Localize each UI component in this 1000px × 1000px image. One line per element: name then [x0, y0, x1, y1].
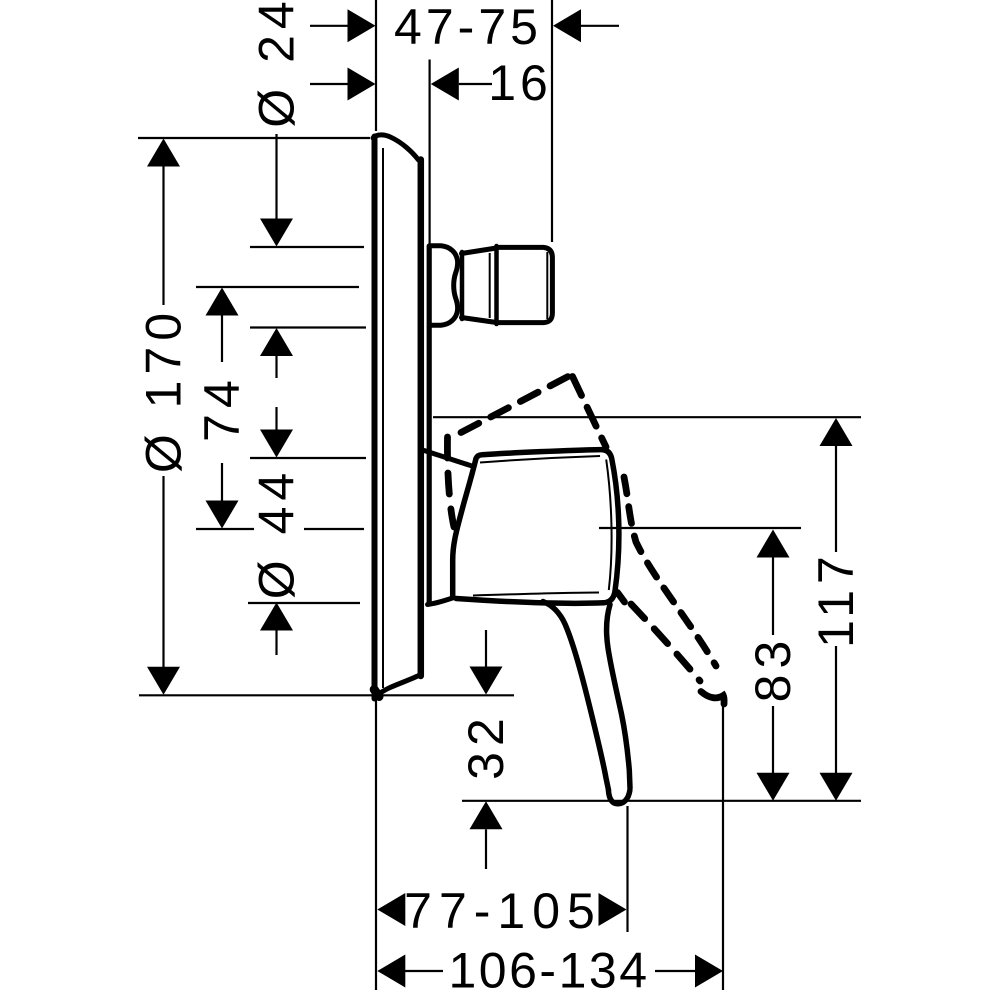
dim 32 lower arrow — [470, 801, 503, 829]
svg-text:16: 16 — [488, 55, 552, 111]
dashed neck edge — [447, 437, 454, 527]
handle body inner line right — [606, 460, 611, 591]
dim 77-105 right arrow — [599, 893, 627, 926]
dim Ø170 lower arrow — [162, 476, 164, 667]
extension line plate front (top) — [375, 0, 377, 131]
dim 83 upper arrow — [757, 530, 790, 558]
extension line handle axis left — [196, 528, 364, 530]
extension line plate top — [138, 137, 370, 139]
svg-text:117: 117 — [808, 550, 864, 648]
extension line stop right face (top) — [551, 0, 553, 242]
extension line handle axis right — [599, 527, 801, 529]
dim Ø24 line upper — [275, 134, 277, 220]
dim 106-134 right arrow — [655, 970, 696, 972]
volume-control stop sleeve — [430, 246, 458, 325]
escutcheon plate front face — [372, 137, 378, 699]
escutcheon plate bottom tip — [374, 690, 379, 697]
dim Ø24 upper arrow — [260, 219, 293, 247]
escutcheon plate inner front line — [382, 148, 384, 688]
handle body inner line bottom — [473, 593, 599, 596]
extension line plate front (bottom) — [375, 697, 377, 990]
svg-text:74: 74 — [194, 374, 250, 442]
lever tip — [608, 790, 630, 804]
lever left edge — [543, 602, 609, 791]
dashed swung-lever lower edge — [631, 604, 700, 681]
stop frustum bottom edge — [462, 318, 497, 323]
dim Ø44 line upper — [275, 407, 277, 430]
stop frustum top edge — [462, 248, 497, 254]
dim 117 upper arrow — [820, 418, 853, 446]
dim 16 left arrow — [310, 83, 348, 85]
svg-text:77-105: 77-105 — [404, 883, 602, 939]
svg-text:47-75: 47-75 — [394, 0, 542, 55]
dim Ø170 upper arrow — [147, 139, 180, 167]
dim 16 right arrow — [431, 68, 459, 101]
svg-text:Ø 170: Ø 170 — [136, 307, 192, 473]
dim 83 lower arrow — [772, 706, 774, 773]
lever right edge — [607, 605, 630, 789]
dim 47-75 right arrow — [553, 9, 581, 42]
extension line handle bottom — [248, 602, 360, 604]
svg-text:83: 83 — [745, 635, 801, 703]
extension line stop top — [250, 246, 364, 248]
extension line solid lever tip — [626, 806, 628, 932]
extension line upper axis right — [433, 416, 861, 418]
dim 74 lower arrow — [221, 463, 223, 501]
valve rear sleeve edge — [427, 246, 432, 603]
dashed swung-lever lower edge tick — [618, 593, 625, 603]
baseline lever tip — [462, 800, 861, 802]
svg-text:Ø 44: Ø 44 — [249, 467, 305, 599]
svg-text:106-134: 106-134 — [449, 943, 650, 999]
dashed swung-lever tip — [701, 692, 724, 705]
dim 117 lower arrow — [835, 646, 837, 773]
dim Ø44 lower arrow — [260, 603, 293, 631]
svg-text:32: 32 — [458, 712, 514, 780]
dim Ø24 lower arrow — [260, 328, 293, 356]
handle neck top — [424, 451, 471, 466]
dim 77-105 left arrow — [377, 893, 405, 926]
extension line plate bottom — [139, 694, 514, 696]
dashed raised-lever right edge — [573, 377, 607, 448]
escutcheon plate bottom edge — [376, 675, 421, 699]
extension line stop axis — [196, 286, 359, 288]
dim 47-75 left arrow — [310, 25, 348, 27]
escutcheon plate back edge — [418, 160, 425, 677]
dim 106-134 left arrow — [377, 955, 405, 988]
extension line dashed lever tip — [722, 699, 724, 990]
svg-text:Ø 24: Ø 24 — [249, 0, 305, 128]
stop knob body — [497, 247, 553, 322]
stop frustum left face — [460, 252, 465, 319]
stop knob inner line left — [489, 253, 491, 318]
dim 74 upper arrow — [206, 288, 239, 316]
escutcheon plate top edge — [373, 135, 419, 160]
dim Ø44 upper arrow — [260, 430, 293, 458]
stop knob inner line right — [546, 252, 548, 319]
dim 32 upper arrow — [485, 630, 487, 667]
handle body inner line top — [480, 456, 600, 463]
dashed swung-lever upper edge — [624, 477, 716, 666]
dim Ø24 line lower — [275, 356, 277, 378]
extension line handle top — [250, 457, 366, 459]
extension line stop bottom — [250, 326, 366, 328]
handle neck bottom — [428, 598, 453, 605]
dashed raised-lever top edge — [461, 376, 570, 433]
wall line behind plate (extension of dim 16) — [429, 60, 431, 247]
stop knob left face — [494, 246, 499, 324]
handle body outline — [453, 450, 619, 604]
dim Ø44 line lower — [275, 631, 277, 656]
